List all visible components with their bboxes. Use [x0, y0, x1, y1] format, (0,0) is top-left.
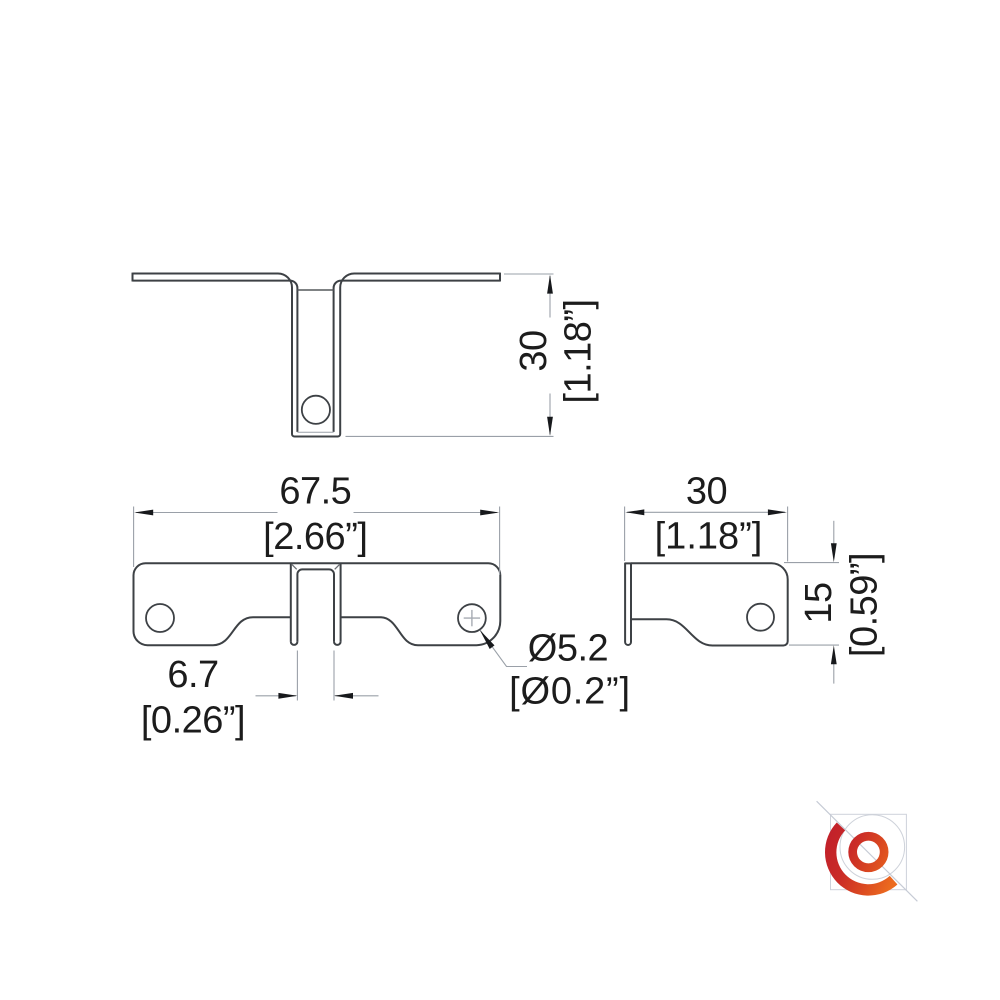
front view: channel interior far-side edge	[297, 289, 333, 291]
dimension 30 (front view): upper arrowhead	[547, 275, 553, 294]
front view: channel inner bottom edge (faint)	[297, 431, 333, 433]
top view: left mounting hole	[146, 604, 174, 632]
top view: channel right leg bottom cap	[334, 642, 341, 645]
front view: left end cap	[132, 273, 134, 282]
svg-text:[Ø0.2”]: [Ø0.2”]	[509, 671, 631, 713]
dimension 30 (side view): value label [1.18"]	[655, 516, 763, 558]
dimension 30 (side view): right extension line	[787, 507, 789, 562]
dimension 6.7: left arrowhead	[278, 693, 297, 699]
dimension 67.5: left arrowhead	[134, 510, 153, 516]
dimension 30 (front view): value label [1.18"]	[558, 299, 600, 403]
top view: right hole center mark vertical	[471, 610, 473, 626]
dimension 15: value label [0.59"]	[844, 553, 886, 657]
dimension 15: value label 15	[798, 582, 840, 623]
logo: gray circle	[840, 815, 905, 880]
dimension 15: bottom extension line	[789, 644, 839, 646]
svg-text:Ø5.2: Ø5.2	[528, 628, 608, 670]
front view: hole in channel	[302, 396, 330, 424]
svg-text:30: 30	[513, 330, 555, 371]
dimension 67.5: right arrowhead	[480, 510, 499, 516]
dimension 6.7: right arrowhead	[334, 693, 353, 699]
dimension 30 (side view): left arrowhead	[625, 509, 644, 515]
top view: right hole center mark horizontal	[464, 617, 480, 619]
dimension 30 (front view): lower arrowhead	[547, 417, 553, 436]
top view: right bend tick	[335, 564, 340, 569]
dimension 30 (front view): dimension line lower segment	[549, 394, 551, 435]
hole diameter label [Ø0.2"]	[509, 671, 631, 713]
top view: left bend tick	[292, 564, 297, 569]
logo: gradient ring	[848, 832, 888, 872]
logo: large gradient arc	[825, 822, 897, 895]
dimension 30 (side view): right arrowhead	[768, 509, 787, 515]
dimension 6.7: right tail line	[335, 695, 379, 697]
svg-text:[1.18”]: [1.18”]	[655, 516, 763, 558]
dimension 67.5: right extension line	[499, 507, 501, 576]
top view: channel left leg bottom cap	[291, 642, 298, 645]
dimension 6.7: value label [0.26"]	[141, 700, 245, 742]
dimension 30 (side view): dimension line	[627, 511, 785, 513]
side view: mounting hole	[747, 604, 774, 631]
dimension 67.5: left extension line	[133, 507, 135, 568]
dimension 15: upper tail line	[833, 521, 835, 545]
svg-text:6.7: 6.7	[167, 654, 218, 696]
dimension 15: upper arrowhead	[831, 543, 837, 562]
dimension 30 (front view): value label 30	[513, 330, 555, 371]
dimension 67.5: dimension line right segment	[354, 512, 498, 514]
front view: flange inner (bottom-surface) line, right	[334, 281, 500, 432]
front view: right end cap	[499, 273, 501, 282]
side view: face strip (edge-on)	[625, 563, 631, 645]
svg-text:[2.66”]: [2.66”]	[263, 516, 367, 558]
svg-text:[1.18”]: [1.18”]	[558, 299, 600, 403]
hole diameter label Ø5.2	[528, 628, 608, 670]
front view: flange inner (bottom-surface) line, left	[133, 281, 298, 432]
svg-text:[0.59”]: [0.59”]	[844, 553, 886, 657]
front view: flange outer profile with channel walls	[133, 274, 501, 437]
logo: gray square	[831, 814, 907, 889]
svg-text:67.5: 67.5	[279, 471, 351, 513]
svg-text:15: 15	[798, 582, 840, 623]
dimension 15: lower arrowhead	[831, 645, 837, 664]
svg-text:30: 30	[686, 471, 727, 513]
dimension 30 (side view): value label 30	[686, 471, 727, 513]
dimension 6.7: left tail line	[256, 695, 297, 697]
side view: body profile	[631, 563, 788, 645]
dimension 6.7: value label 6.7	[167, 654, 218, 696]
top view: channel right leg outer line	[340, 564, 342, 642]
top view: channel inner outline	[297, 569, 334, 641]
hole diameter leader arrowhead	[480, 630, 495, 649]
top view: channel left leg outer line	[290, 564, 292, 642]
dimension 6.7: right extension line	[333, 651, 335, 701]
dimension 6.7: left extension line	[296, 651, 298, 701]
dimension 15: lower tail line	[833, 662, 835, 684]
svg-text:[0.26”]: [0.26”]	[141, 700, 245, 742]
top view: bracket outline with tabs	[134, 563, 501, 645]
dimension 15: top extension line	[784, 562, 839, 564]
dimension 30 (front view): top extension line	[504, 273, 554, 275]
hole diameter leader line	[480, 630, 527, 667]
dimension 67.5: dimension line left segment	[136, 512, 278, 514]
logo: gray diagonal line	[817, 801, 918, 901]
dimension 67.5: value label [2.66"]	[263, 516, 367, 558]
dimension 67.5: value label 67.5	[279, 471, 351, 513]
top view: right mounting hole	[458, 604, 486, 632]
dimension 30 (front view): dimension line upper segment	[549, 276, 551, 318]
dimension 30 (front view): bottom extension line	[346, 435, 554, 437]
dimension 30 (side view): left extension line	[624, 507, 626, 562]
